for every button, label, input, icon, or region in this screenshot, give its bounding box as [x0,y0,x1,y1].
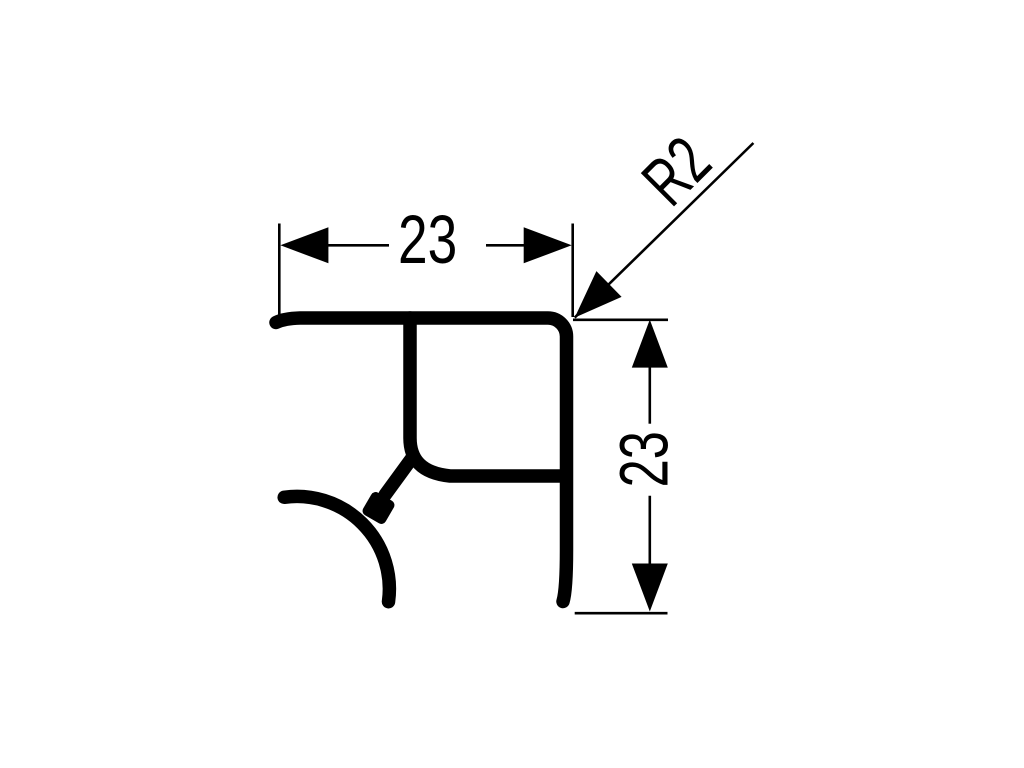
profile foot block (rotated square) [361,490,397,526]
right dimension line upper segment [648,368,651,424]
profile diagonal web to foot [385,458,412,495]
top dimension right arrowhead [524,227,572,263]
profile flexible arc lip [284,496,389,601]
R2 text (rotated) [629,123,725,219]
top dimension left arrowhead [280,227,328,263]
R2 leader arrowhead [575,271,622,318]
extension line right (top dimension) [571,224,574,318]
right dimension text 23 (rotated) [606,431,682,487]
extension line bottom (right dimension) [575,612,668,615]
R2 leader line [575,143,754,318]
top dimension line right segment [486,244,524,247]
right dimension top arrowhead [632,320,668,368]
svg-text:23: 23 [606,431,682,487]
right dimension line lower segment [648,496,651,564]
top dimension line left segment [328,244,389,247]
extension line top (right dimension) [573,318,668,321]
extension line left (top dimension) [278,224,281,317]
top dimension text 23 [398,202,457,278]
profile outer L (top flange + right wall) [276,318,567,602]
profile inner vertical web curving into horizontal web [410,318,560,476]
right dimension bottom arrowhead [632,564,668,612]
svg-text:23: 23 [398,202,457,278]
